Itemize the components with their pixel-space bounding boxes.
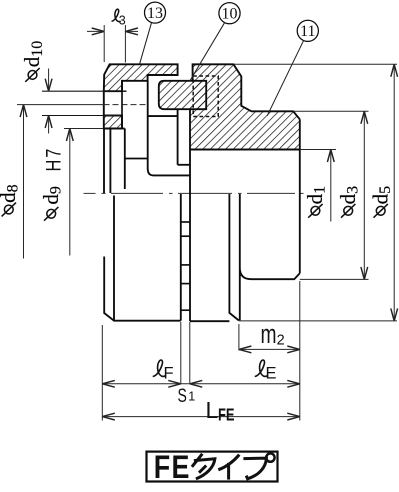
- svg-text:1: 1: [188, 390, 195, 404]
- hidden keyway dashed rectangle: [193, 76, 218, 117]
- hub left face line across bore and gap right edge: [189, 109, 191, 321]
- label lE script ell: [255, 360, 268, 376]
- phi d5 extension lines: [234, 63, 398, 65]
- label lF script ell: [153, 360, 166, 376]
- svg-text:11: 11: [300, 23, 315, 40]
- left sleeve lower external outline: [104, 196, 181, 321]
- part 13 left edge through bore band: [103, 91, 105, 115]
- m2 extension line: [238, 324, 240, 351]
- dim phi d8 half-style: [23, 105, 25, 259]
- gap S1 left edge below centerline: [180, 194, 182, 321]
- svg-text:3: 3: [119, 14, 126, 28]
- gear tooth of part 10 hatched bullet: [159, 81, 206, 109]
- centerline axis: [84, 192, 304, 194]
- m2 dimension line with open arrows: [239, 348, 300, 350]
- svg-text:2: 2: [277, 333, 285, 349]
- right hub lower external outline: [190, 119, 300, 321]
- dim l3 line and outside open arrows: [87, 30, 104, 32]
- label phi d10: [25, 68, 39, 82]
- circle 13 balloon: [145, 2, 166, 23]
- sleeve 10 bore face lines left end: [103, 129, 105, 194]
- phi d1 dimension half line: [330, 150, 332, 222]
- sleeve outer surface under tooth: [148, 115, 178, 117]
- katakana TA: [192, 454, 215, 479]
- phi d3 dimension line: [363, 111, 365, 279]
- leader 13: [140, 23, 152, 65]
- nut bottom edge / d9 bore line: [64, 128, 104, 130]
- svg-text:10: 10: [222, 5, 238, 22]
- svg-text:m: m: [261, 319, 277, 349]
- part 11 hub hatched fill: [190, 64, 300, 149]
- sleeve step vertical with fillet: [148, 81, 190, 176]
- FE type title box: [147, 452, 278, 482]
- svg-text:FE: FE: [154, 450, 191, 486]
- part 11 outline: [193, 64, 300, 119]
- svg-text:H7: H7: [42, 147, 65, 172]
- katakana I: [218, 455, 239, 480]
- svg-text:E: E: [266, 364, 277, 382]
- dim phi d9 H7 half-style: [69, 129, 71, 256]
- svg-text:13: 13: [147, 5, 163, 22]
- gap ticks: [181, 221, 190, 223]
- part 13 flange nut hatched band section: [104, 64, 178, 91]
- leader 10: [190, 23, 225, 81]
- dim phi d10 tails with open arrows: [48, 69, 50, 92]
- label phi d1: [308, 204, 322, 218]
- katakana PU: [243, 453, 274, 478]
- label phi d3: [341, 204, 355, 218]
- label phi d5: [374, 204, 388, 218]
- L FE dimension line: [102, 416, 299, 418]
- phi d1 extension line: [300, 149, 336, 151]
- circle 11 balloon: [297, 20, 318, 41]
- label phi d9: [44, 207, 58, 221]
- svg-text:S: S: [178, 385, 187, 407]
- label l3 script ell: [112, 9, 121, 21]
- thread pitch dashed line (phi d8): [17, 104, 104, 106]
- leader 11: [267, 41, 303, 116]
- sleeve end tick: [178, 164, 190, 166]
- phi d3 extension lines: [293, 110, 368, 112]
- sleeve right end face: [177, 109, 179, 165]
- bottom right extension line: [299, 281, 301, 421]
- circle 10 balloon: [219, 3, 240, 24]
- sleeve counterbore tick: [125, 158, 148, 160]
- nut web right edge: [121, 81, 123, 129]
- svg-text:F: F: [164, 364, 174, 382]
- part 13 lower web hatched: [104, 116, 122, 129]
- phi d5 dimension line with open arrows: [393, 64, 395, 321]
- svg-text:L: L: [206, 397, 219, 423]
- hub bore line: [190, 149, 300, 151]
- svg-text:FE: FE: [218, 406, 235, 425]
- bottom left extension line: [101, 325, 103, 421]
- lF lE S1 shared dimension line: [102, 383, 299, 385]
- S1 extension lines: [180, 322, 182, 384]
- dim l3 extension lines: [103, 25, 105, 62]
- part 13 thread bore lines: [42, 90, 122, 92]
- label phi d8: [2, 203, 16, 217]
- sleeve counterbore vertical: [124, 129, 126, 190]
